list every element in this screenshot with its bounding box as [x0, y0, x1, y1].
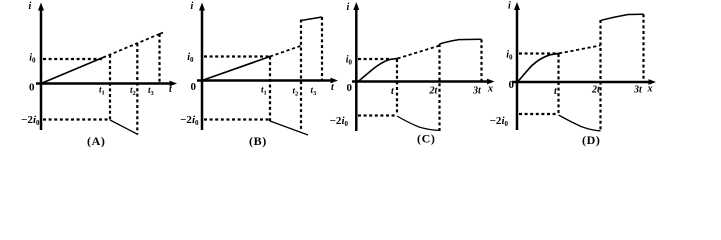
x-axis D: [512, 81, 650, 84]
3t vertical dashed D: [642, 14, 644, 82]
top curve solid C: [440, 39, 482, 44]
y-axis A: [40, 8, 43, 130]
svg-text:(D): (D): [582, 133, 600, 147]
svg-text:i: i: [347, 2, 350, 13]
y-axis D: [516, 7, 519, 130]
t2 vertical dashed A: [136, 43, 138, 133]
ramp solid B: [202, 57, 270, 81]
-2i0 dashed level B: [204, 118, 270, 120]
x-axis C: [352, 80, 488, 83]
t vertical dashed C: [396, 59, 398, 115]
bottom curve solid C: [397, 116, 440, 130]
t vertical dashed D: [557, 54, 559, 113]
svg-text:0: 0: [191, 81, 197, 93]
svg-text:2t: 2t: [591, 85, 601, 96]
bottom diagonal B: [270, 121, 308, 135]
svg-text:2t: 2t: [429, 86, 439, 97]
y-axis B: [201, 8, 204, 130]
rise curve solid C: [358, 58, 399, 82]
2t vertical dashed D: [599, 20, 601, 131]
dashed rise t..2t C: [398, 46, 440, 59]
bottom diagonal A: [110, 120, 138, 135]
2t vertical dashed C: [438, 44, 440, 131]
y-axis C: [355, 7, 358, 131]
svg-text:x: x: [647, 84, 653, 95]
i0 dashed level D: [519, 52, 557, 54]
i0 dashed level C: [358, 58, 391, 60]
t3 vertical dashed A: [158, 34, 160, 84]
box top solid B: [301, 17, 322, 21]
svg-text:(B): (B): [249, 134, 267, 148]
svg-text:x: x: [487, 84, 493, 95]
-2i0 dashed level D: [519, 113, 557, 115]
-2i0 dashed level A: [43, 118, 110, 120]
ramp solid tip A: [157, 33, 163, 36]
dashed rise t..2t D: [559, 45, 601, 53]
svg-text:i: i: [191, 1, 194, 12]
rise curve solid D: [518, 53, 561, 82]
ramp solid A: [41, 58, 103, 84]
svg-text:0: 0: [509, 79, 515, 91]
ramp dashed continuation B: [270, 46, 301, 57]
t2 vertical dashed B (tall): [300, 20, 302, 132]
svg-text:(A): (A): [87, 134, 105, 148]
svg-text:i: i: [508, 1, 511, 12]
top curve solid D: [601, 14, 644, 20]
i0 dashed level B: [204, 55, 270, 57]
t1 vertical dashed B: [269, 57, 271, 122]
ramp dashed continuation A: [103, 35, 158, 58]
svg-text:0: 0: [347, 82, 353, 94]
svg-text:(C): (C): [417, 132, 435, 146]
x-axis B: [197, 79, 332, 82]
bottom curve solid D: [559, 115, 601, 131]
x-axis A: [36, 82, 171, 85]
svg-text:i: i: [29, 1, 32, 12]
t3 vertical dashed B: [321, 17, 323, 81]
i0 dashed level A: [43, 58, 103, 60]
3t vertical dashed C: [480, 40, 482, 82]
svg-text:3t: 3t: [472, 86, 482, 97]
svg-text:0: 0: [29, 82, 35, 94]
-2i0 dashed level C: [358, 114, 396, 116]
t1 vertical dashed A: [109, 55, 111, 120]
svg-text:3t: 3t: [633, 85, 643, 96]
